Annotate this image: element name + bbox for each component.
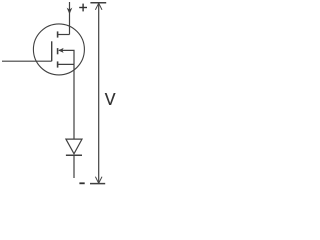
voltage arrowhead bottom — [95, 177, 102, 184]
MOSFET Q1 gate bar — [51, 41, 53, 61]
wire diode to bottom node — [73, 156, 75, 179]
MOSFET Q1 channel tick body — [57, 48, 59, 54]
diode D1 cathode bar — [66, 154, 82, 156]
wire source lead down to diode — [73, 64, 75, 139]
voltage arrow V shaft — [98, 3, 100, 183]
current arrowhead on drain lead — [67, 8, 73, 15]
MOSFET Q1 body arrow shaft — [59, 50, 74, 64]
MOSFET Q1 channel tick source — [57, 61, 59, 67]
minus sign terminal label — [79, 182, 84, 184]
wire drain lead — [69, 2, 71, 35]
MOSFET Q1 body arrowhead — [58, 48, 63, 53]
voltage arrow top cap bar — [90, 2, 106, 4]
voltage arrow bottom cap bar — [90, 183, 105, 185]
wire drain contact — [58, 34, 70, 36]
plus sign terminal label — [79, 4, 87, 12]
label V — [105, 93, 116, 105]
wire gate lead — [2, 60, 52, 62]
wire source contact — [58, 63, 74, 65]
MOSFET Q1 channel tick drain — [57, 31, 59, 37]
MOSFET Q1 envelope circle — [33, 24, 84, 75]
diode D1 triangle — [66, 139, 82, 154]
voltage arrowhead top — [95, 3, 102, 10]
